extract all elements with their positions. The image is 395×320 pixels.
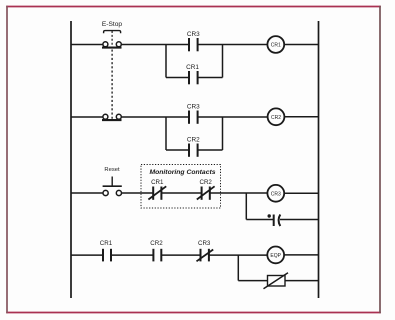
rung 4 wire: [111, 254, 153, 256]
svg-text:EQP: EQP: [270, 253, 281, 259]
rung 2 wire middle: [122, 116, 190, 118]
svg-text:E-Stop: E-Stop: [102, 21, 122, 28]
contact CR3 (NC) rung 4: [197, 249, 214, 262]
pushbutton E-Stop (NC mushroom head): [102, 31, 122, 48]
rung 3 wire left: [71, 192, 103, 194]
svg-text:CR3: CR3: [271, 191, 281, 197]
contact CR1 (NO) rung 1 branch: [189, 71, 198, 84]
svg-text:Monitoring Contacts: Monitoring Contacts: [149, 169, 215, 176]
svg-text:CR2: CR2: [271, 115, 281, 121]
contact CR1 (NC) monitoring: [148, 186, 166, 200]
rung 3 wire right: [210, 192, 268, 194]
coil CR1: [267, 36, 284, 53]
rung 1 wire to rail: [284, 44, 318, 46]
svg-text:CR3: CR3: [187, 31, 200, 38]
contact CR3 (NO) rung 1: [189, 38, 198, 51]
rung 2 wire left: [71, 116, 103, 118]
rung 1 wire right: [198, 44, 268, 46]
coil EQP: [267, 247, 284, 264]
monitoring contacts dashed box: [141, 165, 221, 209]
coil CR3: [267, 185, 284, 202]
rung 1 wire left: [71, 44, 103, 46]
rung 3 wire between contacts: [161, 192, 201, 194]
rung 2 wire right: [198, 116, 268, 118]
rung 4 wire left: [71, 254, 103, 256]
contact CR2 (NO) rung 2 branch: [189, 144, 198, 157]
surge suppressor box with diagonal: [264, 273, 289, 289]
rung 2 wire to rail: [284, 116, 318, 118]
branch wire rung 3 (one-shot capacitor): [246, 193, 318, 220]
branch wire rung 2 (parallel CR2 contact): [166, 117, 223, 150]
rung 3 wire: [122, 192, 153, 194]
branch wire rung 1 (parallel CR1 contact): [166, 45, 223, 78]
svg-text:CR3: CR3: [187, 103, 200, 110]
svg-text:CR1: CR1: [186, 64, 199, 71]
svg-text:CR3: CR3: [198, 240, 211, 247]
svg-text:CR1: CR1: [100, 240, 113, 247]
branch wire rung 4 (protective device): [238, 255, 318, 281]
svg-text:CR2: CR2: [200, 179, 213, 186]
contact CR2 (NO) rung 4: [153, 249, 161, 262]
svg-text:CR1: CR1: [271, 43, 281, 49]
rung 4 wire to rail: [284, 254, 318, 256]
capacitor one-shot symbol: [268, 214, 281, 226]
coil CR2: [268, 108, 285, 125]
rung 1 wire middle: [122, 44, 190, 46]
pushbutton E-Stop second pole (NC): [102, 114, 122, 120]
left power rail: [70, 21, 72, 298]
contact CR1 (NO) rung 4: [103, 249, 111, 262]
svg-text:Reset: Reset: [104, 167, 120, 173]
contact CR2 (NC) monitoring: [197, 186, 215, 200]
svg-text:CR2: CR2: [187, 136, 200, 143]
page border frame: [6, 6, 381, 8]
right power rail: [318, 21, 320, 298]
pushbutton Reset (NO): [103, 177, 122, 196]
svg-text:CR2: CR2: [150, 240, 163, 247]
rung 4 wire right: [209, 254, 267, 256]
rung 3 wire to rail: [284, 192, 318, 194]
mechanical link wire (dashed): [111, 50, 113, 120]
rung 4 wire: [161, 254, 200, 256]
contact CR3 (NO) rung 2: [189, 111, 198, 124]
svg-text:CR1: CR1: [151, 179, 164, 186]
